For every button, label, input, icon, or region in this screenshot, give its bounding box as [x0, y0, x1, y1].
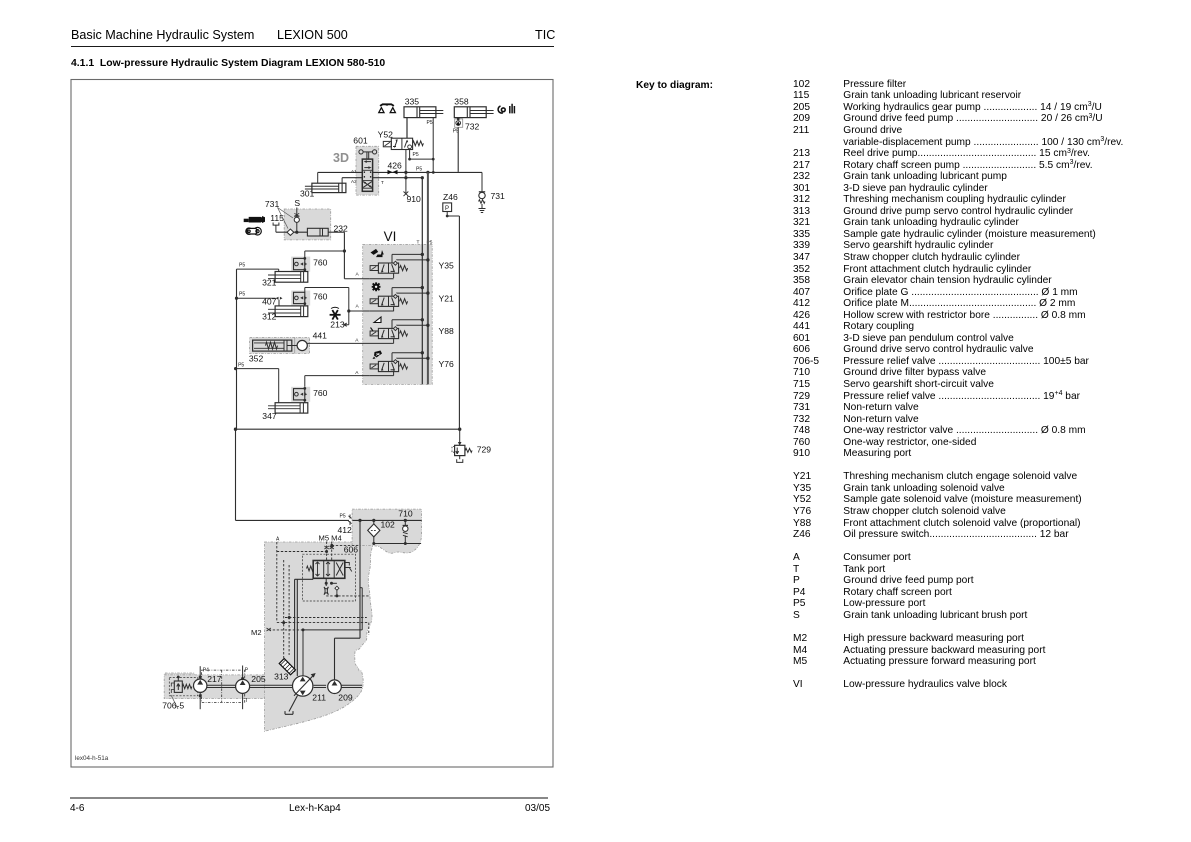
svg-text:115: 115 [270, 213, 284, 223]
svg-text:VI: VI [384, 229, 397, 244]
svg-text:313: 313 [274, 672, 289, 682]
svg-text:P5: P5 [416, 167, 422, 173]
svg-text:710: 710 [398, 509, 413, 519]
svg-text:205: 205 [251, 674, 266, 684]
svg-text:P5: P5 [238, 363, 244, 369]
svg-text:426: 426 [388, 161, 403, 171]
svg-text:441: 441 [313, 331, 328, 341]
svg-text:P: P [245, 668, 249, 674]
svg-text:P: P [445, 206, 449, 212]
svg-text:209: 209 [338, 693, 353, 703]
svg-text:217: 217 [207, 674, 222, 684]
svg-text:lex04-h-51a: lex04-h-51a [75, 755, 109, 762]
svg-text:211: 211 [312, 693, 326, 703]
svg-text:347: 347 [262, 411, 277, 421]
svg-text:213: 213 [330, 320, 345, 330]
svg-text:S: S [294, 198, 300, 208]
svg-text:Y76: Y76 [439, 359, 455, 369]
svg-text:P4: P4 [203, 668, 209, 674]
svg-text:760: 760 [313, 388, 328, 398]
svg-text:321: 321 [262, 278, 277, 288]
svg-text:Y88: Y88 [439, 326, 455, 336]
svg-text:102: 102 [381, 520, 396, 530]
svg-text:760: 760 [313, 291, 328, 301]
svg-text:729: 729 [477, 445, 492, 455]
svg-text:M5 M4: M5 M4 [319, 534, 342, 543]
svg-text:P5: P5 [239, 292, 245, 298]
svg-text:P5: P5 [340, 514, 346, 520]
svg-text:Z46: Z46 [443, 192, 458, 202]
svg-text:606: 606 [344, 545, 359, 555]
svg-text:T: T [381, 180, 384, 185]
svg-text:A: A [355, 338, 359, 344]
svg-text:731: 731 [265, 199, 280, 209]
svg-text:P5: P5 [413, 152, 419, 158]
svg-text:760: 760 [313, 258, 328, 268]
svg-text:312: 312 [262, 312, 277, 322]
svg-text:731: 731 [491, 191, 506, 201]
svg-text:A1: A1 [351, 169, 357, 174]
svg-text:3D: 3D [333, 151, 349, 165]
svg-text:M2: M2 [251, 628, 262, 637]
svg-text:352: 352 [249, 354, 264, 364]
svg-text:A: A [356, 271, 360, 277]
svg-text:732: 732 [465, 122, 480, 132]
svg-text:P5: P5 [427, 120, 433, 126]
svg-text:358: 358 [454, 97, 469, 107]
svg-text:A: A [276, 537, 280, 543]
svg-text:T: T [417, 240, 420, 246]
svg-text:706-5: 706-5 [162, 701, 184, 711]
svg-text:Y35: Y35 [439, 260, 455, 270]
svg-text:P5: P5 [239, 263, 245, 269]
svg-text:335: 335 [405, 97, 420, 107]
svg-text:A: A [356, 304, 360, 310]
svg-text:910: 910 [407, 194, 422, 204]
svg-text:A2: A2 [351, 179, 357, 184]
svg-text:601: 601 [353, 136, 368, 146]
svg-text:T: T [245, 698, 248, 704]
svg-text:Y21: Y21 [439, 294, 455, 304]
svg-text:407: 407 [262, 296, 277, 306]
